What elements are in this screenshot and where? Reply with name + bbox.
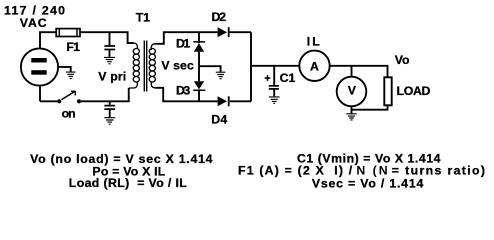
svg-text:N (N: N (N <box>356 163 387 177</box>
svg-text:IL: IL <box>307 35 320 49</box>
svg-text:Load (RL) = Vo / IL: Load (RL) = Vo / IL <box>69 176 187 190</box>
svg-text:V: V <box>348 84 357 98</box>
svg-text:V pri: V pri <box>98 70 126 84</box>
svg-text:D1: D1 <box>176 37 190 51</box>
svg-text:F1 (A) = (2 X I) /: F1 (A) = (2 X I) / <box>238 163 353 177</box>
svg-text:LOAD: LOAD <box>397 84 431 98</box>
svg-text:= turns ratio): = turns ratio) <box>392 163 485 177</box>
svg-text:V sec: V sec <box>161 59 194 73</box>
svg-text:D4: D4 <box>211 112 227 126</box>
svg-text:VAC: VAC <box>20 16 47 30</box>
svg-text:D3: D3 <box>176 84 190 98</box>
svg-text:F1: F1 <box>66 40 80 54</box>
svg-text:on: on <box>62 107 76 121</box>
svg-text:T1: T1 <box>136 11 150 25</box>
svg-text:C1: C1 <box>280 71 296 85</box>
svg-text:Vo: Vo <box>395 53 410 67</box>
svg-text:D2: D2 <box>212 10 227 24</box>
svg-text:A: A <box>310 60 319 74</box>
svg-text:Vsec = Vo / 1.414: Vsec = Vo / 1.414 <box>312 176 424 190</box>
